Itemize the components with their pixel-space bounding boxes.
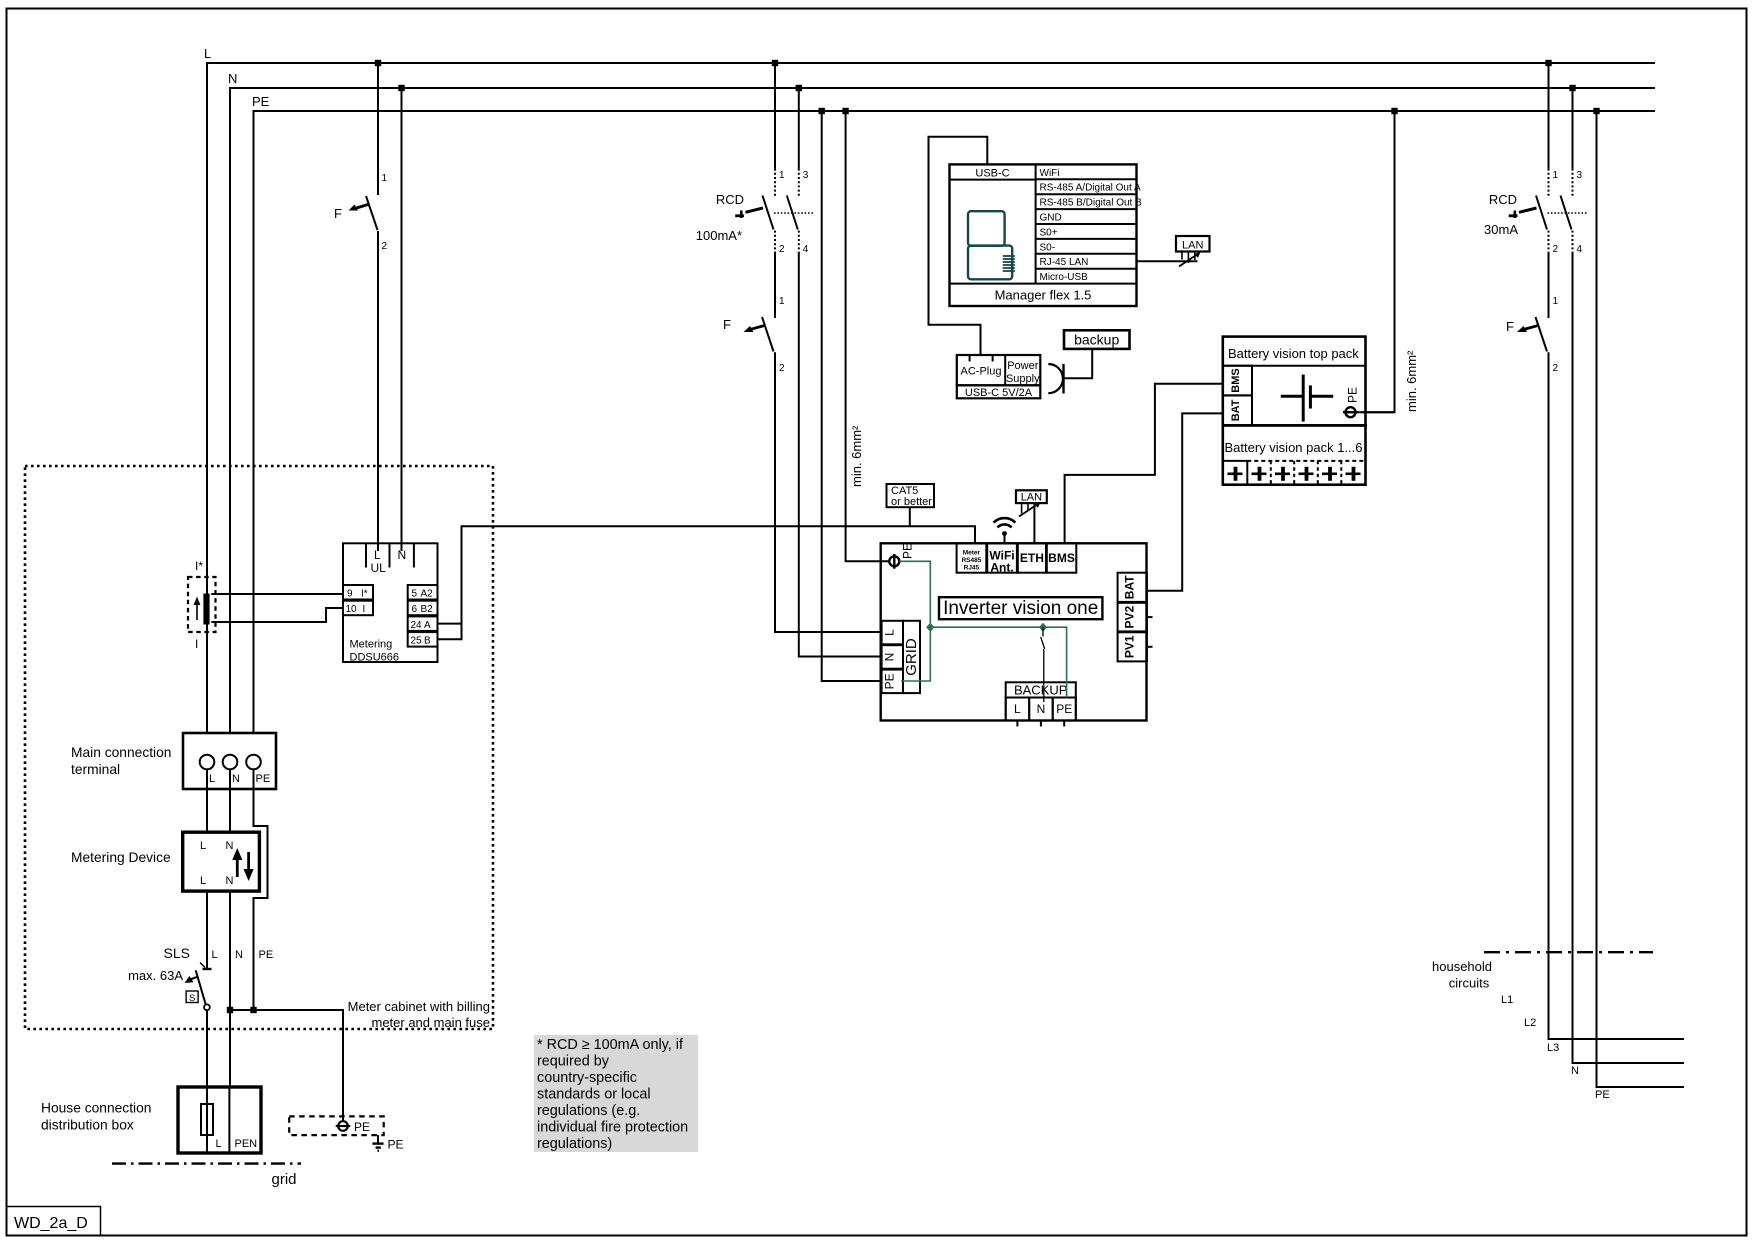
- metering device box: [183, 832, 260, 891]
- svg-text:Micro-USB: Micro-USB: [1040, 272, 1089, 283]
- svg-text:Metering Device: Metering Device: [71, 850, 171, 865]
- PE link dashed box: [289, 1116, 384, 1135]
- fuse F meter blade: [366, 196, 378, 230]
- inverter terminal PV2: [1118, 603, 1153, 632]
- junction PE-grid1: [819, 108, 825, 114]
- svg-text:L: L: [200, 840, 206, 852]
- metering terminal 10 I: [343, 601, 373, 616]
- RCD1 right pole dotted top: [798, 169, 800, 197]
- svg-text:B: B: [424, 636, 431, 647]
- inverter BACKUP block: [1006, 682, 1076, 720]
- svg-text:PE: PE: [883, 673, 897, 689]
- wire L drop to metering: [377, 63, 379, 195]
- battery pack cell 2 symbol: [1252, 467, 1267, 481]
- bus PE: [252, 94, 1655, 733]
- battery pack cells row: [1223, 461, 1366, 485]
- RCD1 left pole blade: [763, 196, 774, 230]
- junction N-RCD2: [1569, 85, 1575, 91]
- svg-text:PE: PE: [1346, 387, 1360, 403]
- SLS bottom contact circle: [204, 1004, 210, 1010]
- wire PE drop to battery PE: [1362, 111, 1395, 412]
- RCD2 right pole wire from N bus: [1572, 88, 1574, 169]
- backup note box: [1064, 330, 1130, 349]
- wire CT to metering terminal 9: [211, 593, 343, 595]
- svg-text:RJ45: RJ45: [964, 565, 980, 572]
- current transformer T1 core: [203, 594, 209, 625]
- svg-text:24: 24: [411, 620, 423, 631]
- svg-text:F: F: [1506, 319, 1514, 334]
- fuse F3 arrow: [1517, 326, 1538, 332]
- metering terminal tick 1: [365, 543, 367, 567]
- junction PE-inv: [842, 108, 848, 114]
- svg-text:L: L: [374, 548, 381, 562]
- inverter PE symbol: [889, 554, 899, 569]
- svg-text:country-specific: country-specific: [537, 1070, 637, 1086]
- SLS top contact bar: [203, 968, 212, 970]
- svg-text:LAN: LAN: [1021, 492, 1042, 504]
- manager port row GND: [1036, 213, 1137, 225]
- svg-text:circuits: circuits: [1449, 976, 1490, 991]
- metering terminal 6 B2: [408, 601, 438, 616]
- wire N metering device down: [229, 891, 231, 1087]
- svg-text:PE: PE: [252, 94, 270, 109]
- wire backup to plug: [1065, 349, 1093, 378]
- title block WD_2a_D: [7, 1207, 101, 1236]
- metering terminal tick 3: [413, 543, 415, 567]
- svg-text:4: 4: [1577, 244, 1583, 255]
- CAT5 note box: [887, 484, 935, 508]
- svg-text:B2: B2: [421, 604, 434, 615]
- svg-text:Battery vision top pack: Battery vision top pack: [1228, 346, 1359, 361]
- battery pack cell 6 symbol: [1346, 467, 1361, 481]
- meter cabinet label: [348, 999, 490, 1030]
- svg-text:L: L: [209, 773, 215, 785]
- green wire PE to grid PE: [900, 561, 931, 681]
- svg-text:L: L: [212, 949, 218, 961]
- bus N: [228, 71, 1655, 733]
- green junction at PE riser: [926, 623, 934, 632]
- wire manager USB-C to AC plug: [929, 137, 988, 355]
- svg-text:Battery vision pack 1...6: Battery vision pack 1...6: [1225, 440, 1363, 455]
- wire RCD2 L to fuse F3: [1548, 252, 1550, 318]
- svg-text:6: 6: [412, 604, 418, 615]
- wire RCD1 L to fuse F2: [774, 252, 776, 318]
- wire N terminal to metering device: [229, 769, 231, 832]
- wire F meter to metering L terminal: [377, 231, 379, 551]
- svg-text:Power: Power: [1007, 360, 1039, 372]
- svg-text:RS-485 B/Digital Out B: RS-485 B/Digital Out B: [1040, 198, 1143, 209]
- svg-text:L: L: [1014, 702, 1021, 716]
- fuse F2 blade: [762, 317, 774, 352]
- RCD2 left pole blade: [1536, 196, 1547, 230]
- svg-text:A2: A2: [421, 589, 434, 600]
- junction L-RCD1: [772, 60, 778, 66]
- USB-C 5V/2A row: [957, 385, 1041, 399]
- RCD1 right pole blade: [787, 196, 798, 230]
- svg-text:BMS: BMS: [1230, 368, 1242, 392]
- svg-text:max. 63A: max. 63A: [128, 968, 183, 983]
- metering terminal 9 I*: [343, 585, 373, 600]
- manager port row RJ-45 LAN: [1036, 257, 1137, 269]
- manager USB device icon: [968, 211, 1015, 279]
- wire metering 24A to RS485 bus: [438, 623, 462, 625]
- metering DDSU666 box: [343, 543, 438, 662]
- svg-text:PE: PE: [1595, 1089, 1610, 1101]
- svg-text:F: F: [334, 206, 342, 221]
- SLS blade: [196, 970, 206, 1004]
- junction N-meter: [398, 85, 404, 91]
- svg-text:L1: L1: [1501, 994, 1513, 1006]
- metering terminal 25 B: [408, 632, 438, 647]
- manager port row WiFi: [1036, 168, 1137, 180]
- battery PE symbol: [1343, 407, 1358, 417]
- wire F3 to household L: [1549, 352, 1685, 1039]
- metering device arrow down: [244, 852, 254, 881]
- GRID label box: [903, 621, 920, 693]
- svg-text:PE: PE: [256, 773, 271, 785]
- manager USB-C header cell: [950, 164, 1036, 283]
- junction PE-household: [1593, 108, 1599, 114]
- wire through house fuse: [206, 1104, 208, 1135]
- svg-text:I: I: [195, 637, 198, 651]
- battery vision top pack box: [1223, 337, 1366, 426]
- wire manager RJ-45 to LAN: [1137, 260, 1198, 262]
- battery vision pack 1..6 box: [1223, 425, 1366, 484]
- svg-text:House connection: House connection: [41, 1101, 151, 1116]
- terminal circle N: [223, 755, 238, 770]
- svg-text:* RCD ≥ 100mA only, if: * RCD ≥ 100mA only, if: [537, 1037, 684, 1053]
- RCD1 coupling dotted link: [774, 212, 813, 214]
- current transformer T1 arrow: [194, 597, 201, 621]
- wire F2 to GRID L: [775, 352, 882, 632]
- house connection label: [41, 1101, 151, 1133]
- svg-text:PE: PE: [354, 1120, 370, 1134]
- svg-text:N: N: [226, 875, 234, 887]
- svg-text:L: L: [883, 629, 897, 636]
- manager port row S0-: [1036, 242, 1137, 254]
- wire LAN to ETH: [1033, 503, 1035, 543]
- svg-text:Ant.: Ant.: [990, 561, 1013, 575]
- metering terminal 5 A2: [408, 585, 438, 600]
- fuse F3 blade: [1536, 317, 1548, 352]
- manager port row RS-485 B: [1036, 198, 1142, 210]
- terminal circle PE: [246, 755, 261, 770]
- svg-text:min. 6mm²: min. 6mm²: [849, 425, 864, 487]
- fuse F meter arrow: [349, 204, 370, 211]
- svg-text:5: 5: [412, 589, 418, 600]
- metering device arrow up: [232, 848, 242, 877]
- svg-text:L3: L3: [1547, 1042, 1559, 1054]
- backup N switch: [1041, 627, 1045, 702]
- RCD1 trip arrow: [735, 208, 763, 218]
- svg-text:1: 1: [1553, 170, 1559, 181]
- wire SLS to house box: [206, 1010, 208, 1104]
- svg-text:RJ-45 LAN: RJ-45 LAN: [1040, 257, 1089, 268]
- svg-text:individual fire protection: individual fire protection: [537, 1120, 688, 1136]
- svg-text:PE: PE: [1056, 702, 1072, 716]
- svg-text:3: 3: [1577, 170, 1583, 181]
- wire PE drop to inverter PE: [846, 111, 889, 561]
- wire battery PE to riser: [1358, 411, 1395, 413]
- junction PE-PEN bridge: [250, 1007, 256, 1013]
- junction N-PEN bridge: [227, 1007, 233, 1013]
- RCD1 left pole dotted top: [774, 169, 776, 197]
- earth electrode symbol: [372, 1135, 383, 1151]
- svg-text:A: A: [424, 620, 431, 631]
- wire N drop to metering: [401, 88, 403, 551]
- svg-text:min. 6mm²: min. 6mm²: [1404, 350, 1419, 412]
- svg-text:Metering: Metering: [350, 639, 393, 651]
- svg-text:Inverter vision one: Inverter vision one: [943, 598, 1098, 619]
- wire L metering device to SLS: [206, 891, 208, 969]
- svg-text:N: N: [883, 653, 897, 662]
- svg-text:2: 2: [382, 241, 388, 252]
- svg-text:N: N: [1571, 1065, 1579, 1077]
- BACKUP terminal L: [1006, 698, 1029, 727]
- wire N to household: [1573, 252, 1685, 1063]
- svg-text:3: 3: [803, 170, 809, 181]
- wire PE bypass around metering device: [254, 769, 268, 1010]
- svg-text:L: L: [216, 1138, 222, 1150]
- svg-text:backup: backup: [1074, 332, 1119, 348]
- wire RCD1 N to GRID N: [799, 252, 882, 657]
- label household circuits: [1432, 959, 1492, 991]
- svg-text:WiFi: WiFi: [1040, 168, 1060, 179]
- svg-text:GND: GND: [1040, 213, 1062, 224]
- svg-text:1: 1: [382, 173, 388, 184]
- svg-text:RCD: RCD: [1489, 192, 1517, 207]
- manager flex 1.5 box: [950, 164, 1137, 306]
- svg-text:RS-485 A/Digital Out A: RS-485 A/Digital Out A: [1040, 183, 1141, 194]
- svg-text:25: 25: [411, 636, 423, 647]
- svg-text:USB-C 5V/2A: USB-C 5V/2A: [965, 387, 1033, 399]
- LAN box manager: [1176, 236, 1210, 252]
- svg-text:BMS: BMS: [1048, 551, 1075, 565]
- battery terminal BMS: [1223, 366, 1252, 396]
- svg-text:BAT: BAT: [1123, 575, 1137, 599]
- AC plug pins: [970, 355, 993, 362]
- inverter terminal BMS: [1047, 543, 1077, 572]
- manager port row RS-485 A: [1036, 183, 1141, 195]
- svg-text:S: S: [189, 993, 195, 1004]
- house connection divider: [228, 1087, 230, 1153]
- svg-text:distribution box: distribution box: [41, 1118, 134, 1133]
- svg-text:30mA: 30mA: [1484, 222, 1518, 237]
- wire PE drop to GRID PE: [822, 111, 882, 681]
- main connection terminal box: [183, 733, 276, 789]
- RCD1 left pole dotted bottom: [774, 231, 776, 252]
- wire PE to household: [1597, 111, 1685, 1087]
- meter cabinet dotted enclosure: [25, 466, 493, 1029]
- AC plug power supply box: [957, 355, 1041, 385]
- wire battery BMS to inverter BMS: [1065, 384, 1223, 544]
- RCD1 right pole dotted bottom: [798, 231, 800, 252]
- junction PE-battery: [1391, 108, 1397, 114]
- wire CAT5 to RS485 bus: [909, 507, 911, 526]
- svg-text:WD_2a_D: WD_2a_D: [14, 1215, 88, 1232]
- battery pack cell 3 symbol: [1275, 467, 1290, 481]
- svg-text:PE: PE: [901, 543, 915, 559]
- svg-text:S0+: S0+: [1040, 227, 1058, 238]
- svg-text:N: N: [226, 840, 234, 852]
- battery pack cell 5 symbol: [1322, 467, 1337, 481]
- LAN inverter connector pins: [1019, 502, 1041, 517]
- SLS top contact tick: [200, 963, 205, 968]
- main connection terminal label: [71, 745, 171, 777]
- battery terminal BAT: [1223, 395, 1252, 425]
- manager port row Micro-USB: [1036, 272, 1137, 284]
- svg-text:F: F: [723, 317, 731, 332]
- svg-text:N: N: [1037, 702, 1046, 716]
- wifi antenna symbol: [994, 518, 1016, 543]
- svg-text:SLS: SLS: [164, 945, 190, 961]
- current transformer T1 dashed outline: [188, 577, 216, 632]
- svg-text:1: 1: [1553, 296, 1559, 307]
- wire metering 25B to RS485 bus: [438, 526, 976, 639]
- wire CT to metering terminal 10: [211, 608, 343, 622]
- SLS S designator box: [186, 991, 198, 1004]
- svg-text:RS485: RS485: [961, 557, 981, 564]
- svg-text:AC-Plug: AC-Plug: [961, 366, 1002, 378]
- inverter terminal PV1: [1118, 632, 1153, 661]
- battery top pack title: [1223, 346, 1366, 366]
- svg-text:Supply: Supply: [1006, 373, 1040, 385]
- svg-text:terminal: terminal: [71, 762, 120, 777]
- RCD2 left pole dotted bottom: [1548, 231, 1550, 252]
- svg-text:Meter cabinet with billing: Meter cabinet with billing: [348, 999, 490, 1014]
- svg-text:L: L: [204, 46, 211, 61]
- battery pack cell 1 symbol: [1228, 467, 1243, 481]
- svg-text:required by: required by: [537, 1054, 610, 1070]
- svg-text:1: 1: [779, 296, 785, 307]
- svg-text:2: 2: [779, 363, 785, 374]
- svg-text:or better: or better: [891, 496, 932, 508]
- svg-text:I*: I*: [195, 559, 203, 573]
- svg-text:PEN: PEN: [235, 1138, 258, 1150]
- svg-text:N: N: [232, 773, 240, 785]
- RCD2 coupling dotted link: [1548, 212, 1587, 214]
- svg-text:Main connection: Main connection: [71, 745, 171, 760]
- junction N-RCD1: [796, 85, 802, 91]
- svg-text:1: 1: [779, 170, 785, 181]
- wire L terminal to metering device: [206, 769, 208, 832]
- svg-text:2: 2: [1553, 244, 1559, 255]
- house fuse F4: [201, 1104, 213, 1135]
- household circuits boundary dash-dot line: [1484, 951, 1653, 953]
- inverter GRID terminal PE: [882, 670, 903, 694]
- LAN manager connector pins: [1179, 252, 1201, 267]
- inverter vision one box: [881, 543, 1147, 720]
- svg-text:I: I: [363, 604, 366, 615]
- fuse F2 arrow: [744, 326, 765, 332]
- svg-text:LAN: LAN: [1182, 240, 1203, 252]
- LAN box inverter: [1016, 490, 1047, 503]
- battery cell symbol: [1281, 375, 1333, 422]
- svg-text:4: 4: [803, 244, 809, 255]
- metering terminal tick 2: [389, 543, 391, 567]
- svg-text:Manager flex 1.5: Manager flex 1.5: [995, 288, 1092, 303]
- RCD1 right pole wire from N bus: [798, 88, 800, 169]
- svg-text:Meter: Meter: [963, 550, 981, 557]
- bus L: [204, 46, 1655, 733]
- RCD1 left pole wire from L bus: [774, 63, 776, 169]
- inverter terminal ETH: [1018, 543, 1046, 572]
- svg-text:N: N: [235, 949, 243, 961]
- battery pack cell 4 symbol: [1299, 467, 1314, 481]
- note RCD requirement: [534, 1035, 698, 1152]
- PE terminal symbol: [336, 1121, 351, 1131]
- RCD2 left pole dotted top: [1548, 169, 1550, 197]
- svg-text:BACKUP: BACKUP: [1014, 683, 1067, 698]
- svg-text:S0-: S0-: [1040, 242, 1056, 253]
- inverter GRID terminal N: [882, 645, 903, 669]
- svg-text:I*: I*: [361, 589, 368, 600]
- RCD2 right pole dotted top: [1572, 169, 1574, 197]
- svg-text:N: N: [398, 548, 407, 562]
- green wire PE to backup PE: [930, 627, 1066, 697]
- wire PEN bridge to earth: [230, 1010, 343, 1121]
- svg-text:2: 2: [779, 244, 785, 255]
- metering terminal 24 A: [408, 616, 438, 631]
- manager port row S0+: [1036, 227, 1137, 239]
- house connection distribution box: [178, 1087, 261, 1153]
- svg-text:regulations (e.g.: regulations (e.g.: [537, 1103, 640, 1119]
- svg-text:grid: grid: [271, 1171, 296, 1188]
- svg-text:household: household: [1432, 959, 1492, 974]
- svg-text:PE: PE: [388, 1138, 404, 1152]
- svg-text:PV2: PV2: [1123, 605, 1137, 628]
- svg-text:9: 9: [347, 589, 353, 600]
- RCD2 right pole dotted bottom: [1572, 231, 1574, 252]
- power plug socket arc: [1048, 364, 1063, 394]
- svg-text:L: L: [200, 875, 206, 887]
- manager name row: [950, 284, 1092, 303]
- junction L-meter: [375, 60, 381, 66]
- svg-text:standards or local: standards or local: [537, 1087, 651, 1103]
- RCD2 left pole wire from L bus: [1548, 63, 1550, 169]
- svg-text:N: N: [228, 71, 237, 86]
- svg-text:PE: PE: [259, 949, 274, 961]
- svg-text:2: 2: [1553, 363, 1559, 374]
- svg-text:meter and main fuse: meter and main fuse: [371, 1015, 490, 1030]
- svg-text:GRID: GRID: [903, 638, 920, 676]
- SLS arrow: [185, 976, 199, 983]
- BACKUP terminal N: [1029, 698, 1053, 727]
- inverter terminal BAT: [1118, 573, 1147, 602]
- grid boundary dash-dot line: [112, 1162, 301, 1164]
- inverter terminal Meter RS485 RJ45: [957, 543, 987, 572]
- svg-text:PV1: PV1: [1123, 635, 1137, 658]
- svg-text:regulations): regulations): [537, 1136, 612, 1152]
- wire battery BAT to inverter BAT: [1147, 413, 1223, 590]
- wire house fuse to box bottom: [206, 1135, 208, 1153]
- svg-text:BAT: BAT: [1230, 399, 1242, 421]
- RCD2 right pole blade: [1561, 196, 1572, 230]
- BACKUP terminal PE: [1053, 698, 1076, 727]
- RCD2 trip arrow: [1509, 208, 1537, 218]
- svg-text:L2: L2: [1524, 1017, 1536, 1029]
- junction L-RCD2: [1545, 60, 1551, 66]
- svg-text:ETH: ETH: [1020, 551, 1044, 565]
- inverter name label: [939, 597, 1102, 619]
- svg-text:DDSU666: DDSU666: [350, 652, 400, 664]
- svg-text:100mA*: 100mA*: [696, 228, 742, 243]
- green junction at backup switch: [1039, 623, 1047, 632]
- inverter terminal WiFi Ant.: [987, 543, 1017, 574]
- svg-text:USB-C: USB-C: [975, 168, 1009, 180]
- svg-text:UL: UL: [371, 561, 387, 575]
- svg-text:RCD: RCD: [716, 192, 744, 207]
